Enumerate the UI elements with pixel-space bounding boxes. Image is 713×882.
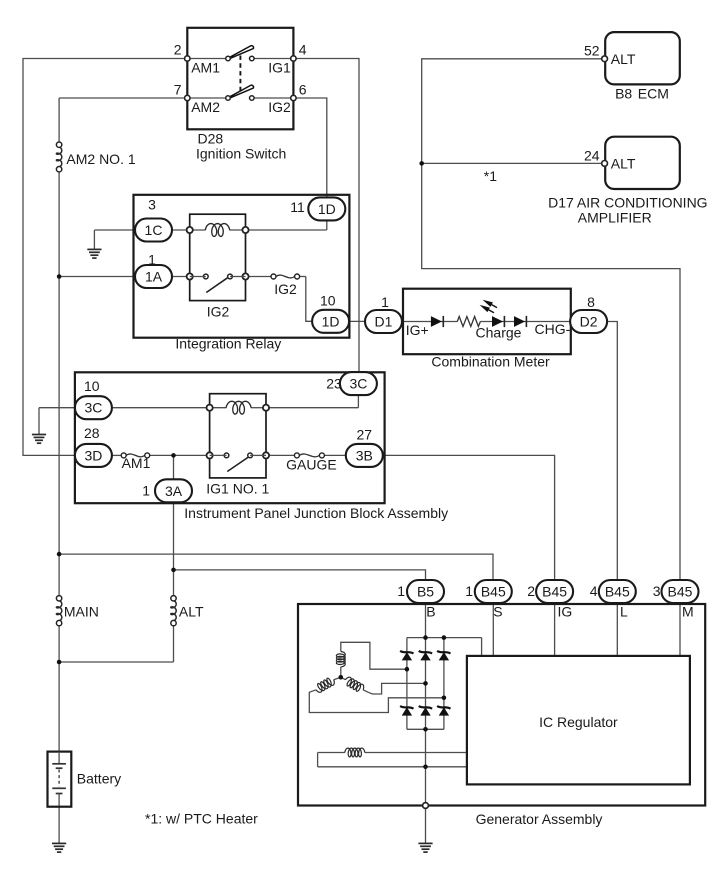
svg-text:B45: B45 <box>542 584 567 600</box>
svg-text:27: 27 <box>357 427 373 443</box>
svg-text:AMPLIFIER: AMPLIFIER <box>578 210 652 226</box>
svg-text:24: 24 <box>584 147 600 163</box>
svg-text:3A: 3A <box>165 483 183 499</box>
svg-text:IG1 NO. 1: IG1 NO. 1 <box>206 481 269 497</box>
svg-text:AM1: AM1 <box>191 59 220 75</box>
svg-text:2: 2 <box>174 42 182 58</box>
svg-text:1: 1 <box>148 251 156 267</box>
svg-text:1: 1 <box>142 483 150 499</box>
svg-text:IC Regulator: IC Regulator <box>539 714 618 730</box>
svg-text:Charge: Charge <box>476 325 522 341</box>
svg-text:3D: 3D <box>84 447 102 463</box>
svg-text:CHG-: CHG- <box>535 321 571 337</box>
svg-text:AM2 NO. 1: AM2 NO. 1 <box>66 151 135 167</box>
svg-text:B45: B45 <box>605 584 630 600</box>
svg-text:B: B <box>426 604 435 620</box>
svg-text:D28: D28 <box>198 131 224 147</box>
svg-text:Combination Meter: Combination Meter <box>431 354 550 370</box>
svg-text:6: 6 <box>299 82 307 98</box>
svg-text:10: 10 <box>84 378 100 394</box>
svg-text:23: 23 <box>326 376 342 392</box>
svg-text:1D: 1D <box>322 313 340 329</box>
svg-text:8: 8 <box>587 294 595 310</box>
svg-text:AM2: AM2 <box>191 99 220 115</box>
svg-text:3: 3 <box>653 583 661 599</box>
svg-text:M: M <box>682 604 694 620</box>
svg-text:IG: IG <box>558 604 573 620</box>
svg-text:IG+: IG+ <box>406 322 429 338</box>
svg-text:B8: B8 <box>615 85 632 101</box>
svg-text:ALT: ALT <box>611 155 636 171</box>
svg-text:10: 10 <box>320 293 336 309</box>
svg-text:ECM: ECM <box>638 85 669 101</box>
svg-text:3: 3 <box>148 197 156 213</box>
svg-text:Battery: Battery <box>77 771 121 787</box>
svg-text:D17 AIR CONDITIONING: D17 AIR CONDITIONING <box>548 195 707 211</box>
svg-text:4: 4 <box>299 42 307 58</box>
svg-text:Instrument Panel Junction Bloc: Instrument Panel Junction Block Assembly <box>184 505 448 521</box>
svg-text:1D: 1D <box>318 201 336 217</box>
svg-text:7: 7 <box>174 82 182 98</box>
svg-text:1C: 1C <box>145 222 163 238</box>
svg-text:1A: 1A <box>145 269 163 285</box>
svg-text:1: 1 <box>397 583 405 599</box>
svg-text:D2: D2 <box>580 314 598 330</box>
svg-text:MAIN: MAIN <box>64 604 99 620</box>
svg-text:ALT: ALT <box>611 51 636 67</box>
svg-text:IG1: IG1 <box>268 59 291 75</box>
svg-text:Generator Assembly: Generator Assembly <box>476 811 603 827</box>
svg-text:Integration Relay: Integration Relay <box>175 336 281 352</box>
svg-text:ALT: ALT <box>179 604 204 620</box>
svg-text:B5: B5 <box>417 584 434 600</box>
svg-text:IG2: IG2 <box>268 99 291 115</box>
svg-text:3B: 3B <box>356 447 373 463</box>
svg-text:L: L <box>620 604 628 620</box>
svg-text:IG2: IG2 <box>207 304 230 320</box>
svg-text:1: 1 <box>465 583 473 599</box>
svg-text:*1: *1 <box>484 168 497 184</box>
svg-text:IG2: IG2 <box>274 281 297 297</box>
svg-text:2: 2 <box>527 583 535 599</box>
svg-text:3C: 3C <box>349 376 367 392</box>
svg-text:B45: B45 <box>668 584 693 600</box>
svg-text:B45: B45 <box>481 584 506 600</box>
svg-text:4: 4 <box>590 583 598 599</box>
svg-text:28: 28 <box>84 425 100 441</box>
svg-text:D1: D1 <box>375 314 393 330</box>
svg-text:S: S <box>493 604 502 620</box>
svg-text:*1: w/ PTC Heater: *1: w/ PTC Heater <box>145 811 258 827</box>
svg-text:1: 1 <box>381 294 389 310</box>
svg-text:GAUGE: GAUGE <box>286 457 337 473</box>
svg-text:3C: 3C <box>84 400 102 416</box>
svg-text:AM1: AM1 <box>122 455 151 471</box>
svg-text:52: 52 <box>584 43 600 59</box>
svg-text:11: 11 <box>290 199 305 215</box>
svg-text:Ignition Switch: Ignition Switch <box>196 146 286 162</box>
